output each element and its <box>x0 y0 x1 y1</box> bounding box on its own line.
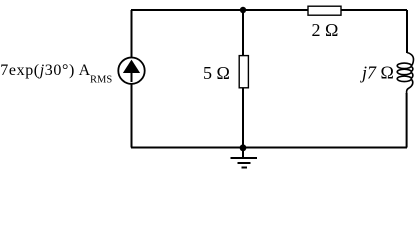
wire bottom <box>131 147 407 149</box>
node dot bottom junction <box>240 144 247 151</box>
current source I1 <box>118 57 144 83</box>
wire top <box>131 9 407 11</box>
svg-text:7exp(j30°) A: 7exp(j30°) A <box>0 62 90 79</box>
svg-text:5 Ω: 5 Ω <box>203 63 230 83</box>
resistor R1 5ohm <box>239 56 248 88</box>
label 2 ohm <box>312 20 339 40</box>
inductor L1 j7ohm <box>397 53 413 95</box>
label 5 ohm <box>203 63 230 83</box>
wire right branch upper <box>406 10 408 53</box>
ground <box>231 148 258 168</box>
wire right branch lower <box>406 93 408 148</box>
svg-text:RMS: RMS <box>90 75 112 86</box>
wire middle branch <box>242 10 244 148</box>
svg-text:j7 Ω: j7 Ω <box>360 63 394 83</box>
node dot top junction <box>240 7 246 13</box>
label j7 ohm <box>360 63 394 83</box>
label source value 7exp(j30) Arms <box>0 62 112 86</box>
svg-text:2 Ω: 2 Ω <box>312 20 339 40</box>
wire left branch <box>131 10 133 148</box>
resistor R2 2ohm <box>308 6 341 15</box>
